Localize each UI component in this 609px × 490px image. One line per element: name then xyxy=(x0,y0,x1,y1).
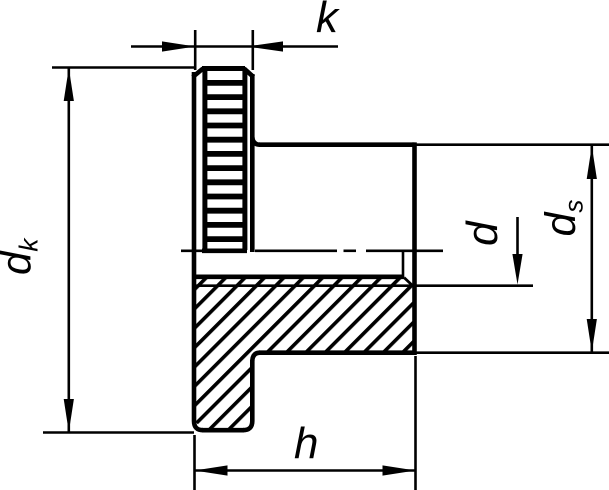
head right face upper xyxy=(250,74,255,252)
band bottom line xyxy=(259,350,415,355)
knurl bars xyxy=(205,83,245,239)
ds bottom extension xyxy=(417,351,609,354)
h dimension line xyxy=(195,469,416,472)
knurl bottom edge xyxy=(202,249,247,254)
shoulder top line xyxy=(259,142,415,147)
svg-text:k: k xyxy=(316,0,340,42)
dk bottom extension xyxy=(43,431,194,434)
hole chamfer diagonal xyxy=(404,278,414,287)
head left face xyxy=(194,72,203,430)
head bottom edge xyxy=(202,428,244,433)
head top edge xyxy=(202,66,245,71)
h arrow left xyxy=(195,465,228,475)
head top chamfer left xyxy=(193,69,203,78)
head top chamfer right xyxy=(244,69,254,78)
shoulder fillet xyxy=(252,137,260,145)
centerline xyxy=(181,250,443,253)
band bottom fillet xyxy=(252,353,260,361)
k arrow right xyxy=(247,41,283,51)
dk arrow down xyxy=(64,399,74,432)
ds top extension xyxy=(417,143,609,146)
dk dimension line xyxy=(68,68,71,432)
h arrow right xyxy=(383,465,416,475)
d leader line xyxy=(404,284,533,287)
h extension right xyxy=(414,356,417,490)
ds dimension line xyxy=(590,146,593,352)
hatched section area xyxy=(194,278,413,429)
knurl inner left xyxy=(202,69,207,251)
h extension left xyxy=(193,435,196,490)
ds arrow up xyxy=(587,146,597,179)
d arrow line xyxy=(516,217,519,260)
svg-text:d: d xyxy=(458,220,507,246)
body right face xyxy=(412,142,417,355)
hole wall line xyxy=(194,274,404,279)
k dimension line xyxy=(131,45,338,48)
dk arrow up xyxy=(64,68,74,101)
d arrowhead xyxy=(512,254,522,285)
hole right thin vertical xyxy=(402,252,405,277)
k extension lines xyxy=(194,30,197,70)
thread major diameter line xyxy=(196,284,404,287)
dk top extension xyxy=(52,66,196,69)
knurl inner right xyxy=(242,69,247,251)
k arrow left xyxy=(162,41,195,51)
head bottom-right corner xyxy=(243,360,252,430)
svg-text:h: h xyxy=(294,419,318,468)
ds arrow down xyxy=(587,319,597,352)
